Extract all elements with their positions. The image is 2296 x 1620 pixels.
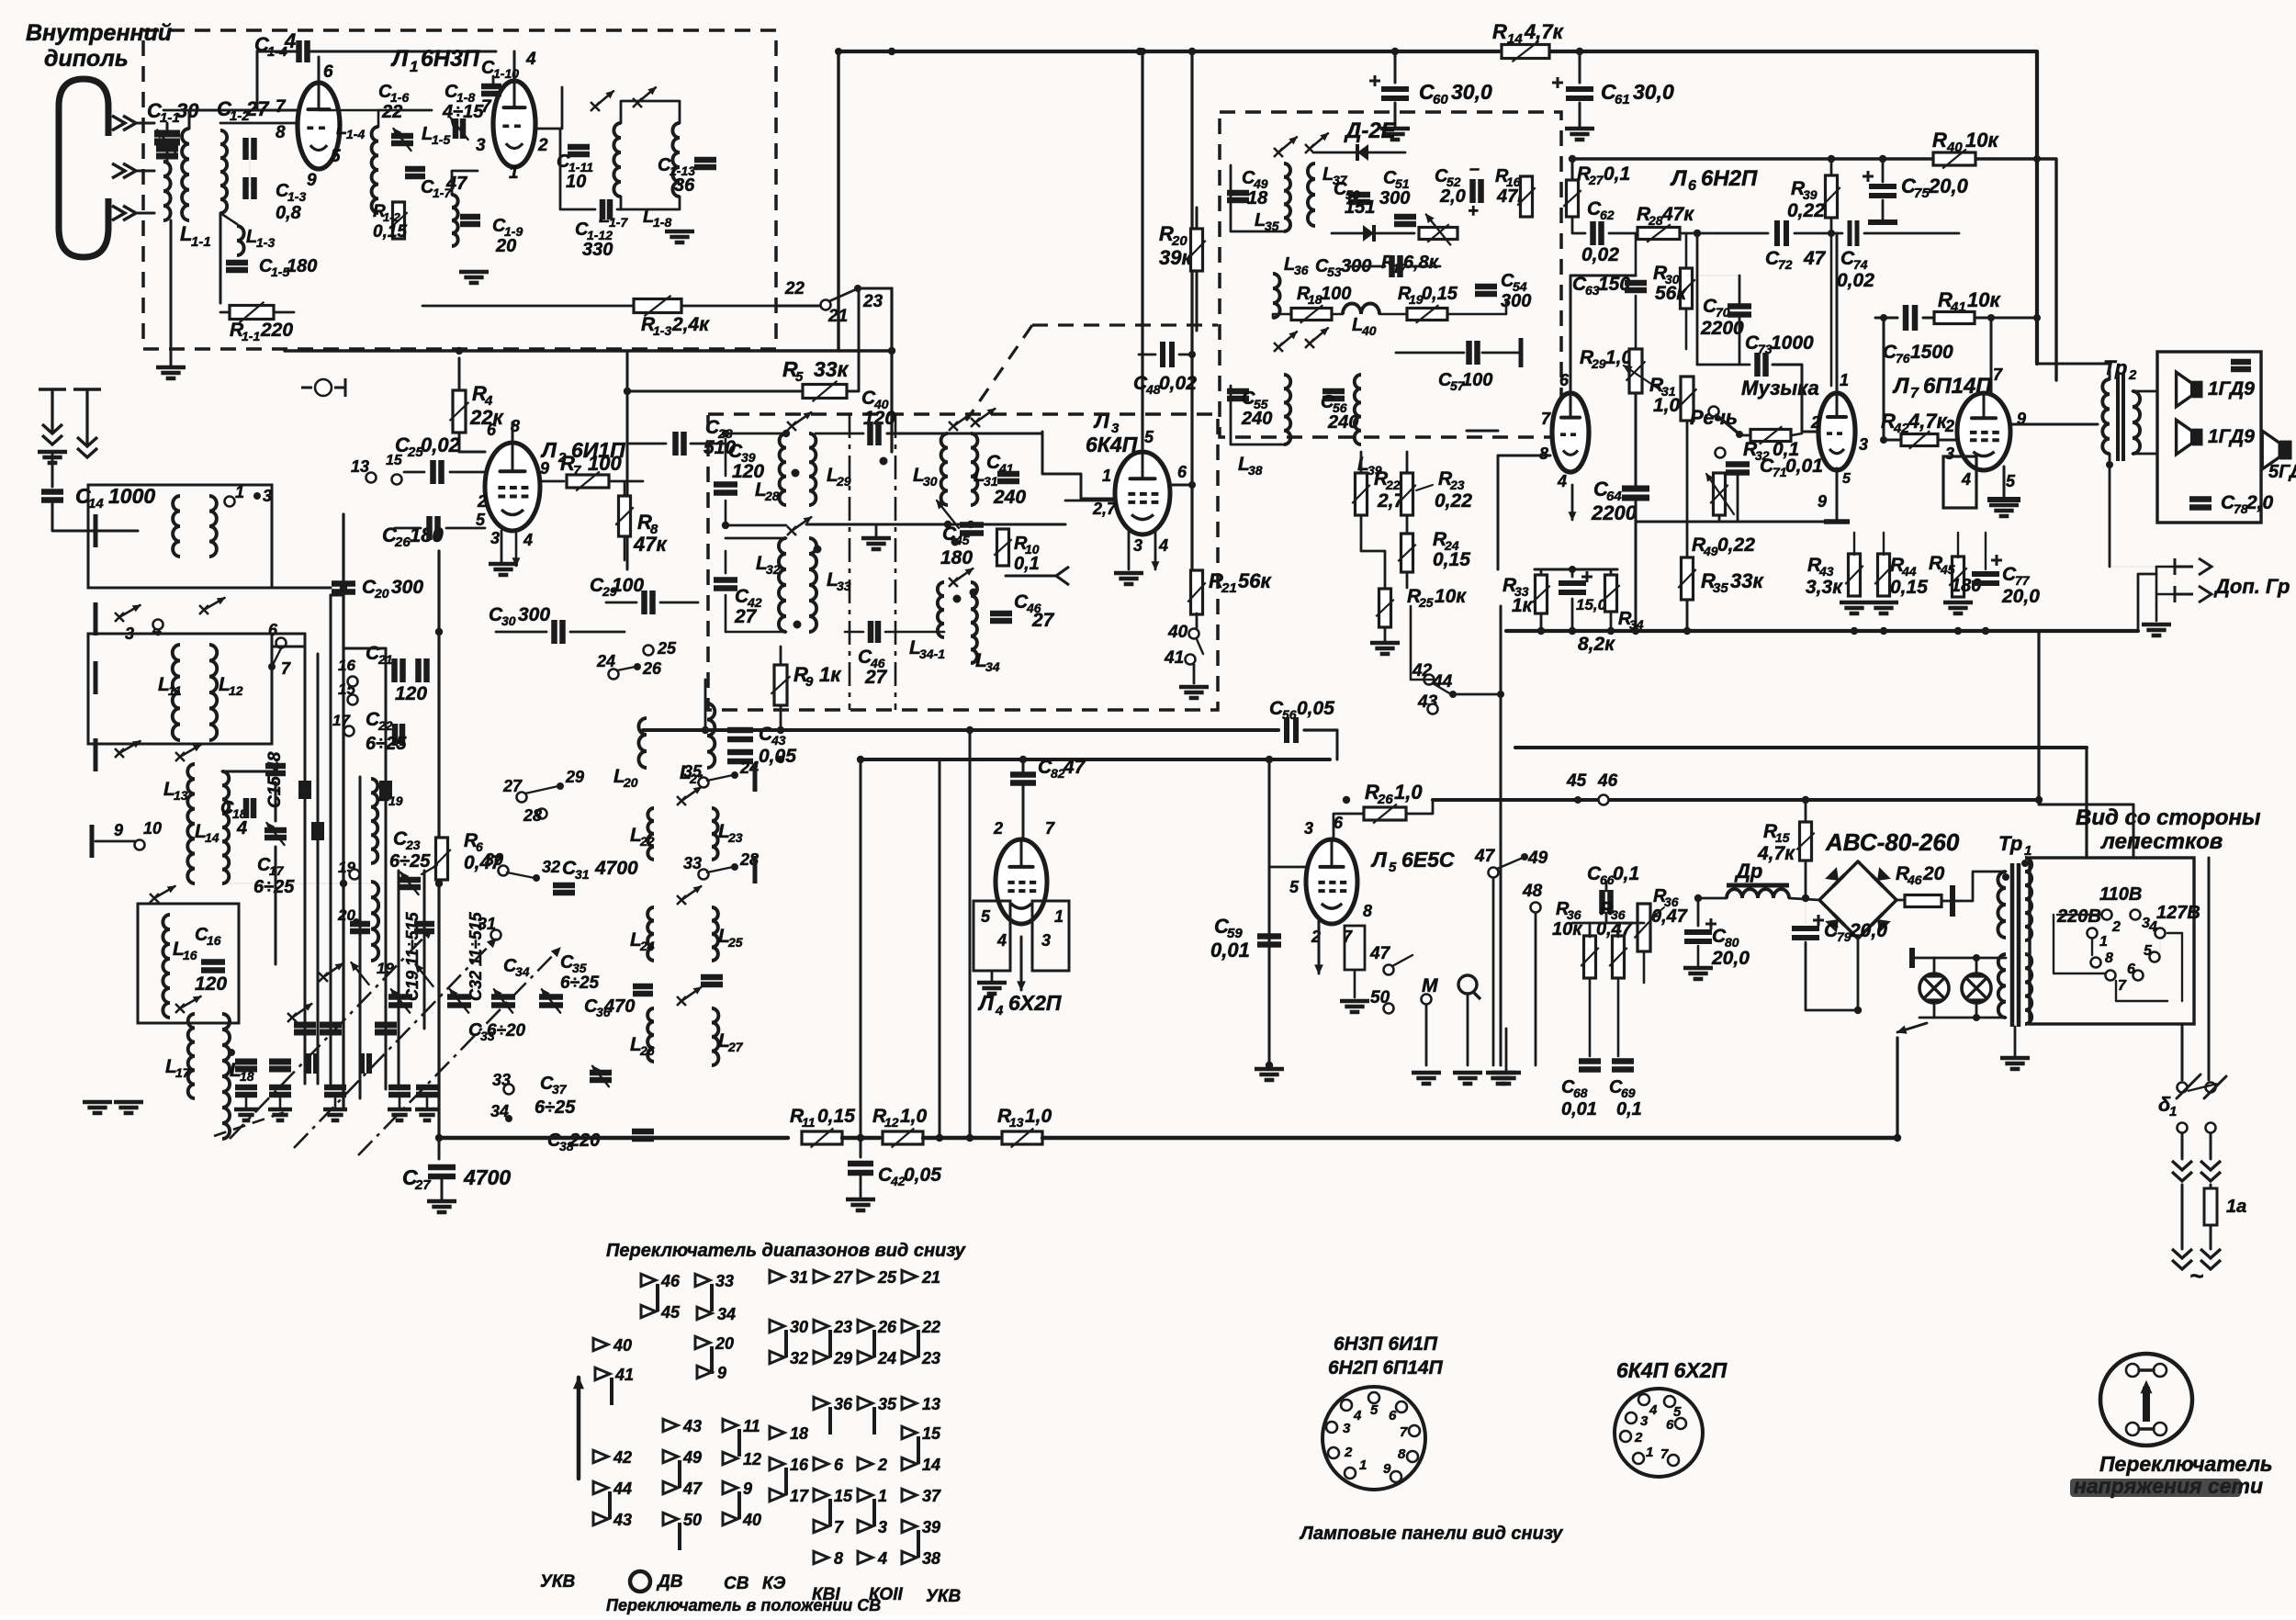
svg-text:14: 14 [922,1456,940,1474]
svg-text:220В: 220В [2056,906,2101,927]
svg-text:25: 25 [727,935,743,950]
svg-text:14: 14 [88,496,104,512]
svg-text:6: 6 [1334,814,1344,832]
svg-text:33: 33 [715,1272,734,1290]
svg-text:1: 1 [1054,907,1064,926]
svg-text:6Н3П 6И1П: 6Н3П 6И1П [1334,1333,1438,1355]
svg-text:34: 34 [717,1305,736,1323]
svg-text:36: 36 [1294,263,1309,277]
svg-text:10: 10 [566,172,586,192]
svg-text:24: 24 [639,939,655,953]
svg-text:5: 5 [331,147,341,166]
svg-text:43: 43 [613,1511,632,1529]
svg-text:4: 4 [1557,472,1567,490]
svg-text:100: 100 [1321,284,1351,304]
svg-text:3: 3 [1859,435,1868,454]
svg-text:7: 7 [1045,819,1055,838]
svg-text:1000: 1000 [1771,332,1814,354]
svg-text:М: М [1422,975,1438,996]
svg-text:1-1: 1-1 [242,329,260,343]
svg-text:30: 30 [923,474,938,489]
svg-text:~: ~ [2189,1262,2203,1289]
svg-text:10к: 10к [1435,586,1467,607]
svg-text:46: 46 [660,1272,681,1290]
svg-text:26: 26 [394,534,411,550]
svg-text:1: 1 [509,163,519,183]
svg-text:27: 27 [414,1177,431,1193]
svg-text:20,0: 20,0 [1849,920,1887,941]
svg-text:4: 4 [1649,1402,1658,1418]
svg-text:28: 28 [764,489,780,503]
svg-text:4,7к: 4,7к [1757,843,1795,864]
svg-text:9: 9 [743,1479,752,1498]
svg-text:1ГД9: 1ГД9 [2208,378,2255,399]
svg-text:62: 62 [1600,208,1615,222]
svg-text:30: 30 [485,850,503,869]
svg-text:Переключатель диапазонов вид: Переключатель диапазонов вид снизу [606,1241,966,1261]
svg-text:ДВ: ДВ [656,1572,683,1592]
svg-text:6Н2П 6П14П: 6Н2П 6П14П [1328,1357,1444,1378]
svg-text:220: 220 [568,1131,600,1151]
svg-text:1: 1 [2099,934,2108,950]
svg-text:12: 12 [743,1450,761,1468]
svg-text:6÷25: 6÷25 [560,973,600,993]
svg-text:37: 37 [922,1487,941,1505]
svg-text:44: 44 [613,1479,632,1498]
svg-text:Л: Л [390,46,409,72]
svg-text:0,05: 0,05 [904,1164,941,1186]
svg-text:300: 300 [518,604,550,625]
svg-text:7: 7 [281,659,291,678]
svg-text:7: 7 [2118,978,2127,994]
svg-text:3,3к: 3,3к [1806,577,1843,598]
svg-text:Доп. Гр: Доп. Гр [2213,575,2290,598]
svg-text:5: 5 [981,907,991,926]
svg-text:34-1: 34-1 [919,647,945,661]
svg-text:127В: 127В [2156,903,2200,923]
svg-text:47: 47 [1474,847,1496,866]
svg-text:7: 7 [276,97,287,117]
svg-text:56: 56 [1282,707,1297,722]
svg-text:180: 180 [287,256,317,276]
svg-text:33: 33 [683,854,702,872]
svg-text:6÷20: 6÷20 [487,1021,526,1041]
svg-text:0,1: 0,1 [1613,863,1639,884]
svg-text:20: 20 [623,775,638,790]
svg-text:31: 31 [575,867,590,882]
svg-text:Др: Др [1734,860,1762,883]
svg-text:2: 2 [1944,417,1954,435]
svg-text:0,05: 0,05 [759,746,796,767]
svg-text:300: 300 [1379,188,1410,208]
svg-text:40: 40 [613,1336,632,1355]
svg-text:1: 1 [235,483,244,501]
svg-text:13: 13 [174,788,188,803]
svg-text:1-5: 1-5 [432,132,450,147]
svg-text:2: 2 [477,492,487,511]
svg-text:16: 16 [790,1456,809,1474]
svg-text:1,0: 1,0 [1653,395,1681,416]
svg-text:2,0: 2,0 [2245,492,2274,513]
svg-text:47: 47 [445,174,467,194]
svg-text:2: 2 [1810,413,1820,432]
svg-text:6К4П 6Х2П: 6К4П 6Х2П [1616,1358,1728,1382]
svg-text:7: 7 [1993,366,2003,384]
svg-text:20: 20 [715,1334,734,1353]
svg-text:6: 6 [268,621,278,639]
svg-text:УКВ: УКВ [540,1572,576,1592]
svg-text:45: 45 [1566,771,1587,791]
svg-text:4,7к: 4,7к [1524,20,1565,43]
svg-text:40: 40 [1946,140,1963,155]
svg-text:3: 3 [476,136,486,155]
svg-text:48: 48 [1522,882,1543,901]
svg-text:29: 29 [565,768,584,786]
svg-text:32: 32 [542,858,560,876]
svg-text:22: 22 [784,279,805,298]
svg-text:4700: 4700 [594,858,638,879]
svg-text:0,02: 0,02 [1581,244,1619,265]
svg-text:43: 43 [682,1417,702,1435]
svg-text:0,01: 0,01 [1785,456,1823,477]
svg-text:42: 42 [613,1448,632,1467]
svg-text:0,15: 0,15 [1433,549,1470,570]
svg-text:1,0: 1,0 [1394,781,1423,804]
svg-text:20: 20 [374,586,389,601]
svg-text:6: 6 [323,62,333,82]
svg-text:6: 6 [1559,371,1570,389]
svg-text:9: 9 [114,821,123,839]
svg-text:38: 38 [1248,463,1263,478]
svg-text:2: 2 [1344,1445,1353,1460]
svg-text:23: 23 [921,1349,940,1367]
svg-text:0,05: 0,05 [1297,698,1334,719]
svg-text:5: 5 [1144,428,1154,446]
svg-text:16: 16 [338,657,355,674]
svg-text:40: 40 [1361,323,1377,338]
svg-text:110В: 110В [2099,884,2142,905]
svg-text:КЭ: КЭ [762,1574,786,1593]
svg-text:35: 35 [1713,580,1728,596]
svg-text:6: 6 [1389,1408,1397,1423]
svg-text:27: 27 [1588,173,1604,187]
svg-text:0,15: 0,15 [1422,284,1458,304]
svg-text:1: 1 [1102,467,1111,485]
svg-text:2: 2 [537,136,548,155]
svg-text:25: 25 [877,1268,897,1287]
svg-text:3: 3 [1304,819,1313,838]
svg-text:20: 20 [495,236,516,256]
svg-text:0,22: 0,22 [1435,490,1472,512]
svg-text:5: 5 [476,511,486,529]
svg-text:11: 11 [802,1115,816,1130]
svg-text:22: 22 [639,834,655,849]
svg-text:14: 14 [205,830,219,845]
svg-text:0,1: 0,1 [1616,1099,1642,1119]
svg-text:37: 37 [552,1082,568,1097]
svg-text:220: 220 [260,320,293,341]
svg-text:R: R [1932,129,1947,152]
svg-text:4: 4 [996,931,1007,950]
svg-text:4: 4 [284,29,296,52]
svg-text:1: 1 [410,58,418,75]
svg-text:13: 13 [922,1395,940,1413]
svg-text:7: 7 [481,97,492,117]
svg-text:5: 5 [795,369,804,385]
svg-text:13: 13 [351,457,369,476]
svg-text:4,7к: 4,7к [1908,410,1949,433]
svg-text:29: 29 [836,474,851,489]
svg-text:25: 25 [1418,595,1434,610]
svg-text:47к: 47к [1661,204,1694,225]
svg-text:28: 28 [1648,213,1663,228]
svg-text:2: 2 [2128,367,2137,383]
svg-text:УКВ: УКВ [926,1587,962,1606]
svg-text:12: 12 [229,683,243,698]
svg-text:11: 11 [743,1417,760,1435]
svg-text:120: 120 [395,683,427,704]
svg-text:6К4П: 6К4П [1086,433,1138,456]
svg-text:21: 21 [1221,580,1237,596]
svg-text:4: 4 [1961,470,1971,489]
svg-text:10к: 10к [1965,129,1999,152]
svg-text:0,1: 0,1 [1604,163,1630,185]
svg-text:6: 6 [2127,962,2135,977]
svg-text:18: 18 [790,1424,808,1443]
svg-text:1ГД9: 1ГД9 [2208,426,2255,447]
svg-text:27: 27 [1031,610,1055,631]
svg-text:4: 4 [525,50,536,69]
svg-text:АВС-80-260: АВС-80-260 [1825,828,1960,856]
svg-text:68: 68 [1573,1086,1588,1100]
svg-text:23: 23 [727,830,743,845]
svg-text:6,8к: 6,8к [1403,253,1439,273]
svg-text:0,02: 0,02 [421,433,461,456]
svg-text:–: – [1469,159,1480,179]
svg-text:100: 100 [612,575,644,596]
svg-text:2: 2 [877,1456,887,1474]
svg-text:5: 5 [2006,472,2016,490]
svg-text:330: 330 [582,240,613,260]
svg-text:0,1: 0,1 [1014,554,1040,574]
svg-text:0,01: 0,01 [1210,939,1250,962]
svg-text:1: 1 [1840,371,1849,389]
svg-text:3: 3 [1640,1413,1649,1429]
svg-text:39: 39 [922,1518,940,1536]
svg-text:50: 50 [683,1511,702,1529]
svg-text:36: 36 [674,175,695,196]
svg-text:38: 38 [922,1549,940,1568]
svg-text:9: 9 [540,459,549,478]
svg-text:7: 7 [1541,410,1551,428]
svg-text:Ламповые панели вид снизу: Ламповые панели вид снизу [1299,1524,1563,1544]
svg-text:Л: Л [1370,848,1388,872]
svg-text:4700: 4700 [463,1165,511,1189]
svg-text:6Н2П: 6Н2П [1701,166,1758,191]
svg-text:Д-2Е: Д-2Е [1344,118,1397,143]
svg-text:7: 7 [1910,386,1919,401]
svg-text:4: 4 [236,818,247,838]
svg-text:8: 8 [1398,1446,1406,1462]
svg-text:180: 180 [940,547,973,568]
svg-text:0,02: 0,02 [1837,270,1874,291]
svg-text:17: 17 [175,1065,191,1080]
svg-text:36: 36 [834,1395,853,1413]
svg-text:Тр: Тр [1998,832,2022,855]
svg-text:9: 9 [1383,1461,1391,1477]
svg-text:47: 47 [1063,757,1086,778]
svg-text:1000: 1000 [108,484,155,508]
svg-text:4: 4 [1158,536,1168,555]
svg-text:1: 1 [1646,1445,1653,1460]
svg-text:12: 12 [884,1115,899,1130]
svg-text:18: 18 [1247,188,1268,208]
svg-text:45: 45 [1940,562,1955,577]
svg-text:1: 1 [878,1487,887,1505]
svg-text:47к: 47к [633,533,668,556]
svg-text:6: 6 [487,421,497,439]
svg-text:7: 7 [834,1518,844,1536]
svg-text:46: 46 [1597,771,1618,791]
svg-text:0,01: 0,01 [1561,1099,1597,1119]
svg-text:4: 4 [1353,1408,1362,1423]
svg-text:9: 9 [717,1364,726,1382]
svg-text:22: 22 [921,1318,940,1336]
svg-text:26: 26 [877,1318,897,1336]
svg-text:29: 29 [1591,356,1606,371]
svg-text:2,0: 2,0 [1439,186,1466,207]
svg-text:9: 9 [1818,492,1827,511]
svg-text:46: 46 [1907,872,1922,887]
svg-text:34: 34 [515,964,530,979]
svg-text:72: 72 [1778,257,1793,272]
svg-text:49: 49 [682,1448,702,1467]
svg-text:6: 6 [834,1456,844,1474]
svg-text:8: 8 [276,123,286,142]
svg-text:151: 151 [1345,197,1375,218]
svg-text:1500: 1500 [1910,342,1953,363]
svg-text:47: 47 [1803,248,1827,269]
svg-text:100: 100 [1462,370,1492,390]
svg-text:1к: 1к [1512,595,1534,616]
svg-text:53: 53 [1327,264,1342,279]
svg-text:30,0: 30,0 [1633,80,1674,104]
svg-text:8: 8 [1363,902,1372,920]
svg-text:1-3: 1-3 [256,235,275,250]
svg-text:29: 29 [833,1349,852,1367]
svg-text:0,15: 0,15 [1890,577,1928,598]
svg-text:15: 15 [922,1424,941,1443]
svg-text:3: 3 [263,487,272,505]
svg-text:1а: 1а [2226,1197,2246,1217]
svg-text:0,22: 0,22 [1717,534,1755,556]
svg-text:10к: 10к [1967,288,2001,311]
svg-text:26: 26 [1377,792,1393,807]
svg-text:11: 11 [168,683,182,698]
svg-text:1-8: 1-8 [653,215,671,230]
svg-text:6Х2П: 6Х2П [1008,991,1062,1015]
svg-text:3: 3 [878,1518,887,1536]
svg-text:1-10: 1-10 [493,66,519,81]
svg-text:56к: 56к [1238,569,1272,592]
svg-text:69: 69 [1621,1086,1636,1100]
svg-text:7: 7 [1400,1424,1408,1440]
svg-text:10: 10 [143,819,162,838]
svg-text:2,7: 2,7 [1092,500,1117,518]
svg-text:470: 470 [603,996,635,1017]
svg-text:5ГД: 5ГД [2268,462,2296,482]
svg-text:25: 25 [657,639,677,658]
svg-text:Л: Л [1670,166,1687,191]
svg-text:0,15: 0,15 [817,1106,855,1127]
svg-text:27: 27 [502,777,523,795]
svg-text:33к: 33к [814,357,850,381]
svg-text:100: 100 [588,452,622,475]
svg-text:20,0: 20,0 [1711,948,1750,969]
svg-text:5: 5 [1289,878,1300,896]
svg-text:45: 45 [660,1303,681,1322]
svg-text:27: 27 [864,667,888,688]
svg-text:5: 5 [2144,943,2153,959]
svg-text:Л: Л [1093,409,1110,433]
svg-text:56к: 56к [1655,283,1687,304]
svg-text:Музыка: Музыка [1741,377,1819,399]
svg-text:15,0: 15,0 [1576,596,1607,613]
svg-text:1,0: 1,0 [1025,1106,1052,1127]
svg-text:3: 3 [1133,536,1142,555]
svg-text:3: 3 [1343,1421,1351,1436]
svg-text:1к: 1к [819,663,842,686]
svg-text:47: 47 [1369,944,1391,963]
svg-text:16: 16 [207,933,221,948]
svg-text:14: 14 [1507,31,1523,47]
svg-text:20: 20 [1922,863,1945,884]
svg-text:4: 4 [877,1549,887,1568]
svg-text:26: 26 [639,1043,655,1058]
svg-text:2200: 2200 [1700,318,1744,339]
svg-text:5: 5 [1389,860,1397,875]
svg-text:75: 75 [1914,186,1930,201]
svg-text:32: 32 [790,1349,808,1367]
svg-text:СВ: СВ [724,1574,749,1593]
svg-text:2: 2 [1634,1430,1643,1446]
svg-text:31: 31 [478,915,496,933]
svg-text:Переключатель: Переключатель [2099,1452,2273,1476]
svg-text:27: 27 [833,1268,853,1287]
svg-text:3: 3 [1041,931,1051,950]
svg-text:32: 32 [766,562,781,577]
svg-text:30: 30 [790,1318,808,1336]
svg-text:33: 33 [837,579,851,593]
svg-text:13: 13 [1009,1115,1024,1130]
svg-text:9: 9 [307,171,317,190]
svg-text:300: 300 [391,577,423,598]
svg-text:4: 4 [995,1003,1004,1018]
svg-text:17: 17 [790,1487,809,1505]
svg-text:Л: Л [977,991,995,1015]
svg-text:1-4: 1-4 [346,127,365,141]
svg-text:47: 47 [682,1479,703,1498]
svg-text:2: 2 [993,819,1003,838]
svg-text:40: 40 [1167,623,1188,642]
svg-text:6÷25: 6÷25 [535,1097,576,1118]
svg-text:6: 6 [1177,463,1187,481]
svg-text:6÷25: 6÷25 [389,851,431,872]
svg-text:1-3: 1-3 [287,189,306,204]
svg-text:9: 9 [805,674,814,690]
svg-text:3: 3 [1945,444,1954,463]
svg-text:1-1: 1-1 [191,234,211,250]
